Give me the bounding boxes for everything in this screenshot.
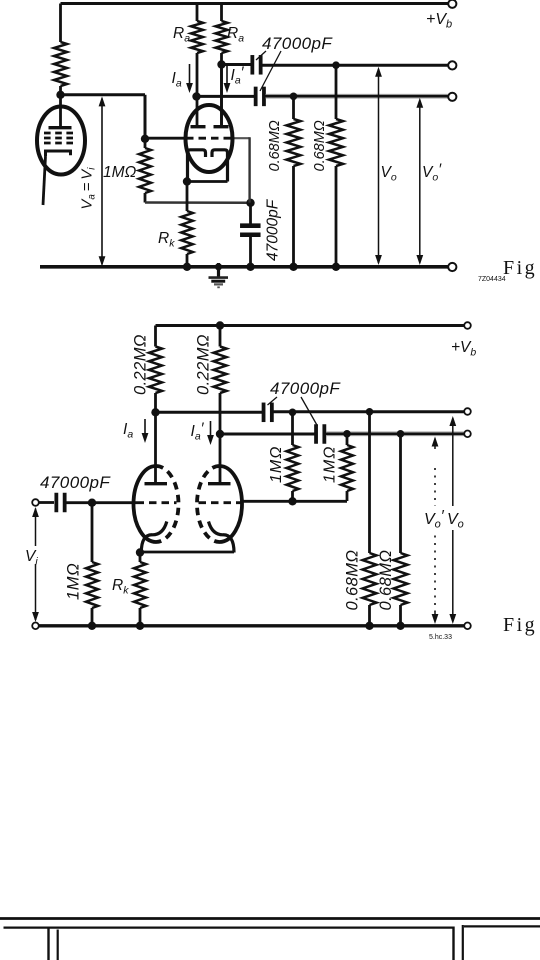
resistor 1MOhm (grid feed) xyxy=(144,139,147,148)
svg-text:Va = Vi: Va = Vi xyxy=(80,167,98,210)
node: bypass cap to rail xyxy=(246,263,254,271)
wire: common cathode bus circuit 2 xyxy=(140,551,234,554)
tube V1 grid dashes (3 grids) xyxy=(44,132,75,135)
measurement arrow Vi xyxy=(35,509,37,621)
resistor 0.68MOhm right circuit 2 xyxy=(399,434,402,553)
capacitor 47000pF coupling 2 xyxy=(254,87,258,107)
svg-text:Ia: Ia xyxy=(172,70,182,90)
label Vo circuit 2 xyxy=(446,506,463,530)
svg-text:7Z04434: 7Z04434 xyxy=(478,276,506,283)
resistor 1MOhm input grid leak xyxy=(91,503,94,562)
resistor Ra (right) xyxy=(220,4,223,22)
resistor 1MOhm feedback right xyxy=(346,434,349,445)
table vertical rule middle-right inner xyxy=(462,925,464,960)
wire: ground rail circuit 2 xyxy=(39,624,465,627)
svg-text:Fig: Fig xyxy=(503,614,537,636)
label and arrow Ia-prime xyxy=(226,64,228,85)
wire: output rail 1 to terminal xyxy=(262,64,448,67)
node: junction grid of V2 / 1M resistor xyxy=(141,135,149,143)
resistor 0.68MOhm left circuit 2 xyxy=(368,412,371,553)
tube A plate xyxy=(154,412,157,482)
tube V2 cathode 2 xyxy=(212,150,228,182)
tube V2 cathode 1 xyxy=(188,150,206,182)
resistor anode load of V1 (top-left) xyxy=(59,4,62,43)
capacitor 47000pF coupling A xyxy=(262,403,266,423)
node: top of 47000pF bypass capacitor xyxy=(246,199,254,207)
svg-text:Ia′: Ia′ xyxy=(231,65,245,87)
terminal ground rail right circuit 2 xyxy=(464,623,471,630)
wire: 1M bottom to bypass capacitor node xyxy=(145,201,251,204)
wire: grid of V2 right-side lead down to bypass node xyxy=(233,137,250,139)
resistor 0.68MOhm left circuit 1 xyxy=(292,96,295,119)
svg-text:0.68MΩ: 0.68MΩ xyxy=(377,550,395,611)
wire: line B to coupling cap 2 xyxy=(197,95,255,98)
wire: grid lead into tube V2 xyxy=(145,137,186,140)
measurement arrow Vo-prime circuit 2 xyxy=(434,439,436,450)
wire: ground rail circuit 1 xyxy=(40,265,448,269)
capacitor 47000pF input xyxy=(54,493,58,513)
svg-text:47000pF: 47000pF xyxy=(265,198,282,261)
tube B cathode xyxy=(209,522,235,553)
ground symbol xyxy=(215,263,222,270)
node: Rk to rail circuit 2 xyxy=(136,622,144,630)
node: anode A output tap xyxy=(151,408,159,416)
measurement arrow Vo circuit 2 xyxy=(452,418,454,621)
table inner top border right segment xyxy=(464,925,540,927)
terminal output 1 circuit 2 xyxy=(464,408,471,415)
svg-text:1MΩ: 1MΩ xyxy=(65,563,83,600)
resistor 1MOhm feedback left xyxy=(291,412,294,445)
tube A envelope (half dashed) xyxy=(134,466,157,542)
tube V2 double triode envelope xyxy=(186,105,233,172)
resistor 0.22MOhm right xyxy=(216,321,224,329)
svg-text:0.22MΩ: 0.22MΩ xyxy=(195,334,213,395)
wire: output line 1 to coupling cap xyxy=(156,411,263,414)
svg-text:Rk: Rk xyxy=(112,577,129,597)
svg-text:5.hc.33: 5.hc.33 xyxy=(429,634,452,641)
tube B grid dashes xyxy=(199,501,242,504)
wire: cap to grid A xyxy=(67,501,137,504)
leader lines to coupling caps circuit 2 xyxy=(268,397,278,405)
tube V2 grid dashes xyxy=(186,137,233,140)
terminal +Vb circuit 2 xyxy=(464,322,471,329)
node: 0.68M left to rail xyxy=(289,263,297,271)
resistor Ra (left) xyxy=(196,4,199,22)
wire: input lead to cap xyxy=(39,501,55,504)
label Vi xyxy=(24,546,41,564)
resistor Rk circuit 2 xyxy=(139,553,142,563)
svg-text:47000pF: 47000pF xyxy=(40,473,111,492)
terminal ground rail left circuit 2 xyxy=(32,623,39,630)
wire: top supply rail +Vb circuit 1 xyxy=(61,2,448,5)
measurement arrow Va=Vi xyxy=(101,99,103,265)
leader lines to coupling caps xyxy=(256,51,266,60)
svg-text:0.22MΩ: 0.22MΩ xyxy=(132,334,150,395)
tube B envelope (half dashed) xyxy=(220,466,243,542)
wire: output line 1 to terminal xyxy=(274,410,465,413)
node: 0.68M left to rail circuit 2 xyxy=(365,622,373,630)
node: cathode junction circuit 2 xyxy=(136,548,144,556)
svg-text:Rk: Rk xyxy=(158,230,175,250)
svg-text:47000pF: 47000pF xyxy=(270,379,341,398)
node: 0.68M right to rail xyxy=(332,263,340,271)
node: cathode junction xyxy=(183,177,191,185)
wire: output line 2 to terminal xyxy=(326,431,464,436)
terminal +Vb circuit 1 xyxy=(448,0,456,8)
table vertical rule left inner xyxy=(57,930,59,960)
svg-text:+Vb: +Vb xyxy=(451,339,476,359)
wire: output line 2 to coupling cap xyxy=(220,433,315,436)
wire: output line to coupling cap 1 xyxy=(222,63,252,66)
svg-text:0.68MΩ: 0.68MΩ xyxy=(312,120,328,171)
table outer top border xyxy=(0,917,540,920)
tube V1 pentode envelope xyxy=(37,107,85,175)
tube V1 anode lead and plate bar xyxy=(59,95,62,127)
table vertical rule left outer xyxy=(47,927,49,960)
tube V1 cathode xyxy=(46,151,71,156)
wire: V1 cathode lead xyxy=(43,156,46,205)
svg-text:Ia′: Ia′ xyxy=(191,421,205,443)
resistor Rk circuit 1 xyxy=(186,182,189,212)
terminal input top xyxy=(32,499,39,506)
terminal ground rail circuit 1 xyxy=(448,263,456,271)
table vertical rule middle-right outer xyxy=(452,927,454,960)
svg-text:Ra: Ra xyxy=(227,25,244,45)
node: anode B output tap xyxy=(216,430,224,438)
resistor 0.68MOhm right circuit 1 xyxy=(335,65,338,119)
terminal output 2 circuit 2 xyxy=(464,431,471,438)
node: 1M input to rail xyxy=(88,622,96,630)
tube A cathode xyxy=(141,522,167,553)
node: Rk to rail xyxy=(183,263,191,271)
svg-text:Fig: Fig xyxy=(503,257,537,279)
wire: V1 anode to grid branch (line A) xyxy=(61,93,146,96)
capacitor 47000pF (vertical, cathode bypass) xyxy=(240,223,260,228)
svg-text:1MΩ: 1MΩ xyxy=(268,446,285,483)
wire: common cathode bus V2 xyxy=(186,180,228,183)
node: grid leak junction xyxy=(88,499,96,507)
tube A grid dashes xyxy=(137,501,177,504)
wire: grid B junction line xyxy=(242,500,348,503)
svg-text:0.68MΩ: 0.68MΩ xyxy=(344,550,362,611)
svg-text:Vo′: Vo′ xyxy=(422,162,442,184)
node: anode of V1 xyxy=(56,91,64,99)
tube B plate xyxy=(219,434,222,482)
tube V2 plate bars xyxy=(196,97,199,127)
svg-text:Vo: Vo xyxy=(381,164,397,184)
capacitor 47000pF coupling B xyxy=(314,424,318,444)
capacitor 47000pF coupling 1 xyxy=(250,55,254,75)
resistor 0.22MOhm left xyxy=(154,326,157,347)
measurement arrow Vo-prime circuit 1 xyxy=(419,100,421,263)
terminal output 1 circuit 1 xyxy=(448,61,456,69)
wire: output rail 2 to terminal xyxy=(266,94,448,99)
svg-text:1MΩ: 1MΩ xyxy=(103,164,137,181)
svg-text:Ra: Ra xyxy=(173,25,190,45)
label Vo-prime circuit 2 xyxy=(423,506,443,530)
node: feedback junction xyxy=(288,497,296,505)
table inner top border left segment xyxy=(4,926,453,928)
wire: top supply rail +Vb circuit 2 xyxy=(156,324,465,327)
svg-text:Ia: Ia xyxy=(123,421,133,441)
svg-text:0.68MΩ: 0.68MΩ xyxy=(267,120,283,171)
node: 0.68M right to rail circuit 2 xyxy=(396,622,404,630)
svg-text:1MΩ: 1MΩ xyxy=(322,446,339,483)
svg-text:+Vb: +Vb xyxy=(426,11,452,31)
node: anode 1 output tap xyxy=(192,92,200,100)
terminal output 2 circuit 1 xyxy=(448,93,456,101)
measurement arrow Vo circuit 1 xyxy=(378,69,380,263)
svg-text:47000pF: 47000pF xyxy=(262,34,333,53)
node: anode 2 output tap xyxy=(217,60,225,68)
